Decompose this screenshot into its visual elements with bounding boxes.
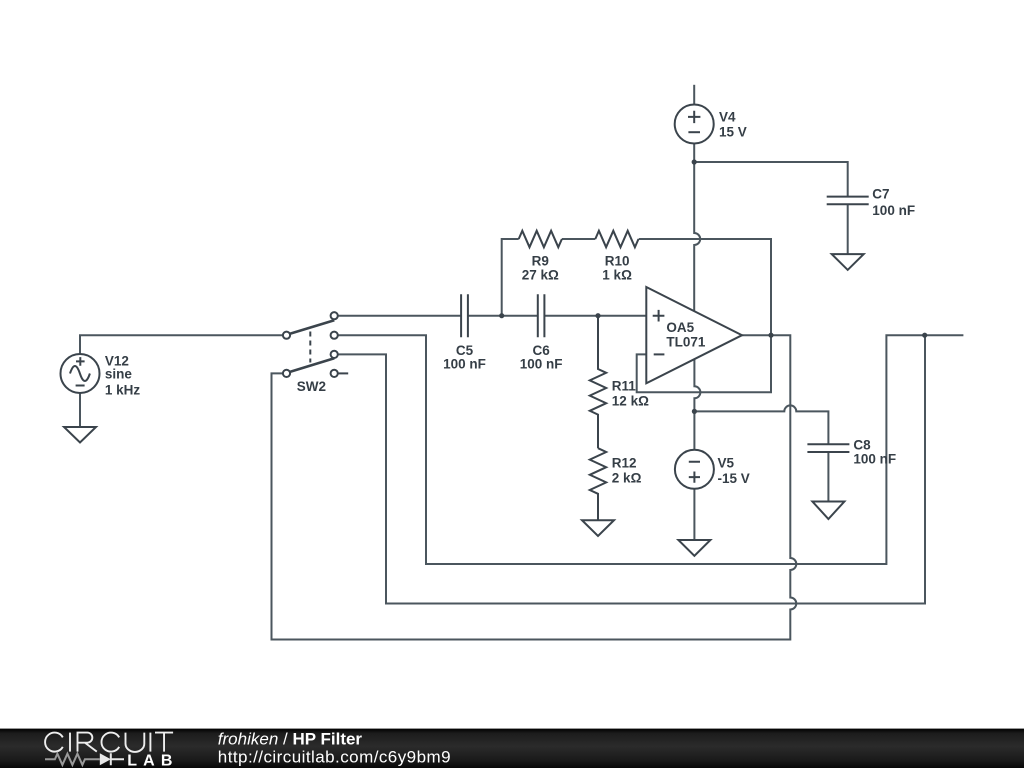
svg-text:R9: R9 [532,253,549,268]
wire V5 bottom to ground [693,489,695,540]
node dot right [922,333,927,338]
ground below C7 [832,254,864,270]
wire C7 to ground [847,204,849,254]
node dot V- [692,409,697,414]
svg-text:R10: R10 [605,253,630,268]
svg-text:LAB: LAB [127,753,178,768]
resistor R10 [595,231,638,247]
voltage source V4 [675,105,714,144]
capacitor C6 [538,294,545,337]
ground below R12 [582,520,614,536]
wire R10 to output node [639,239,771,335]
wire SW2 throw1a to C5 [338,315,461,317]
wire C6 to op-amp plus input [544,315,646,317]
wire V12 bottom to ground [79,393,81,427]
wire node A up to R9 [502,239,519,316]
wire op-amp V+ pin with hop [694,162,700,311]
svg-text:SW2: SW2 [297,379,326,394]
wire C8 to ground [827,452,829,502]
svg-text:1 kHz: 1 kHz [105,383,141,398]
wire V- node to C8 with hop [694,405,828,444]
wire SW2 throw2a right loop [338,335,925,603]
wire R9 to R10 [562,238,595,240]
svg-text:100 nF: 100 nF [853,452,896,467]
node dot C6-opamp [595,313,600,318]
resistor R9 [519,231,562,247]
switch SW2 [290,320,334,334]
capacitor C5 [461,294,468,337]
svg-text:100 nF: 100 nF [443,356,486,371]
svg-text:http://circuitlab.com/c6y9bm9: http://circuitlab.com/c6y9bm9 [218,748,451,767]
svg-text:C8: C8 [853,438,871,453]
logo squiggle [45,754,100,765]
voltage source V12 [61,354,100,393]
wire C5 to C6 [468,315,538,317]
wire V4 node to C7 [694,162,848,197]
wire SW2 throw1b right loop [338,335,964,564]
ground below V12 [64,427,96,443]
capacitor C7 [827,197,869,205]
node dot C5-C6 [499,313,504,318]
svg-text:15 V: 15 V [719,125,747,140]
svg-text:-15 V: -15 V [718,471,750,486]
svg-text:27 kΩ: 27 kΩ [522,268,559,283]
svg-text:OA5: OA5 [666,320,694,335]
svg-text:R12: R12 [612,455,637,470]
resistor R11 [590,316,606,449]
node dot output [768,333,773,338]
svg-text:TL071: TL071 [666,335,706,350]
svg-text:12 kΩ: 12 kΩ [612,393,649,408]
svg-text:V5: V5 [718,456,735,471]
svg-text:100 nF: 100 nF [872,203,915,218]
svg-text:100 nF: 100 nF [520,356,563,371]
svg-text:R11: R11 [612,378,637,393]
wire V4 top stub [693,85,695,105]
svg-text:sine: sine [105,367,133,382]
node dot V4 out [692,159,697,164]
wire op-amp V- pin with hop [694,359,700,450]
footer bar [0,729,1024,768]
svg-text:V4: V4 [719,109,736,124]
resistor R12 [590,448,606,520]
ground below V5 [678,540,710,556]
CircuitLab logo CIRCUIT [45,733,173,752]
svg-text:1 kΩ: 1 kΩ [602,268,632,283]
wire op-amp minus feedback loop [637,335,771,392]
svg-text:frohiken / HP Filter: frohiken / HP Filter [218,730,363,749]
wire V4 bottom to node [693,144,695,163]
ground below C8 [812,502,844,520]
wire op-amp output to SW2 pole2 loop [272,335,797,639]
op-amp U OA5 [646,287,742,383]
svg-text:2 kΩ: 2 kΩ [612,471,642,486]
capacitor C8 [807,444,849,452]
svg-text:C7: C7 [872,187,889,202]
voltage source V5 [675,450,714,489]
wire V12 top to SW2 pole1 [80,335,283,354]
